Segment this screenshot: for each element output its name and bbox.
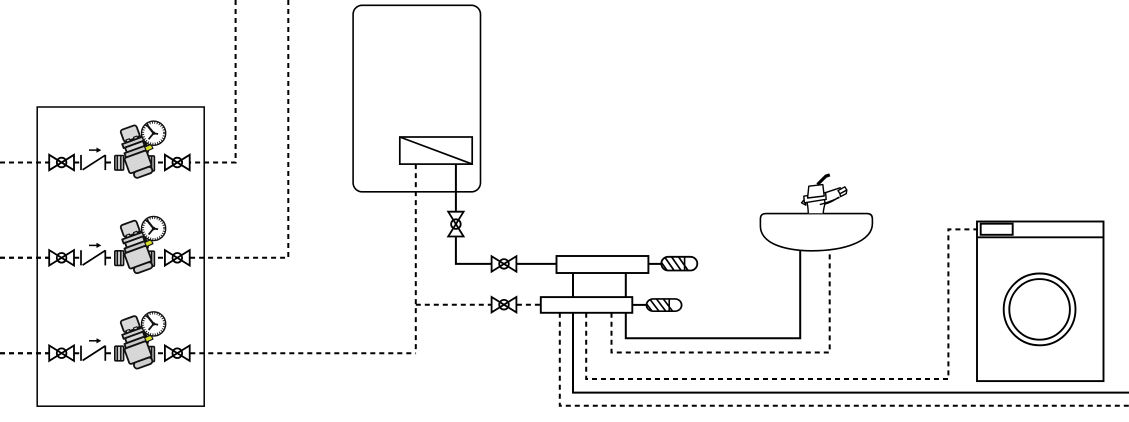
cold flexible connector <box>642 298 681 312</box>
boiler <box>353 5 480 192</box>
filter row 3 <box>0 312 190 371</box>
boiler hot outlet pipe <box>455 164 457 211</box>
faucet <box>802 175 847 213</box>
cold manifold outlet stub <box>632 304 646 306</box>
riser pipe 1 (row1 to top) <box>190 0 235 163</box>
washing machine body <box>977 222 1104 382</box>
enclosure box (pressure reducing station) <box>37 107 204 406</box>
riser pipe 2 (row2 to top) <box>190 0 288 258</box>
hot manifold outlet stub <box>648 263 661 265</box>
cold feed pipe row3 to boiler riser <box>190 352 415 354</box>
filter row 2 <box>0 216 190 275</box>
supply stub row 1 <box>0 162 49 164</box>
isolating valve (hot manifold feed) <box>492 256 517 271</box>
supply stub row 2 <box>0 257 49 259</box>
isolating valve (vertical, hot outlet) <box>448 212 463 237</box>
boiler cold riser (dashed vertical) <box>415 164 417 353</box>
cold manifold <box>541 297 633 313</box>
filter row 1 <box>0 121 190 180</box>
heat exchanger <box>400 137 472 164</box>
cold outlet pipes below manifold <box>560 313 1129 406</box>
supply stub row 3 <box>0 352 49 354</box>
sink basin <box>760 214 872 251</box>
hot manifold <box>557 256 649 273</box>
isolating valve (cold manifold feed) <box>492 297 517 312</box>
cold branch to lower manifold <box>416 304 491 306</box>
hot connector pipes through manifolds <box>573 273 1129 393</box>
hot flexible connector <box>657 256 698 272</box>
